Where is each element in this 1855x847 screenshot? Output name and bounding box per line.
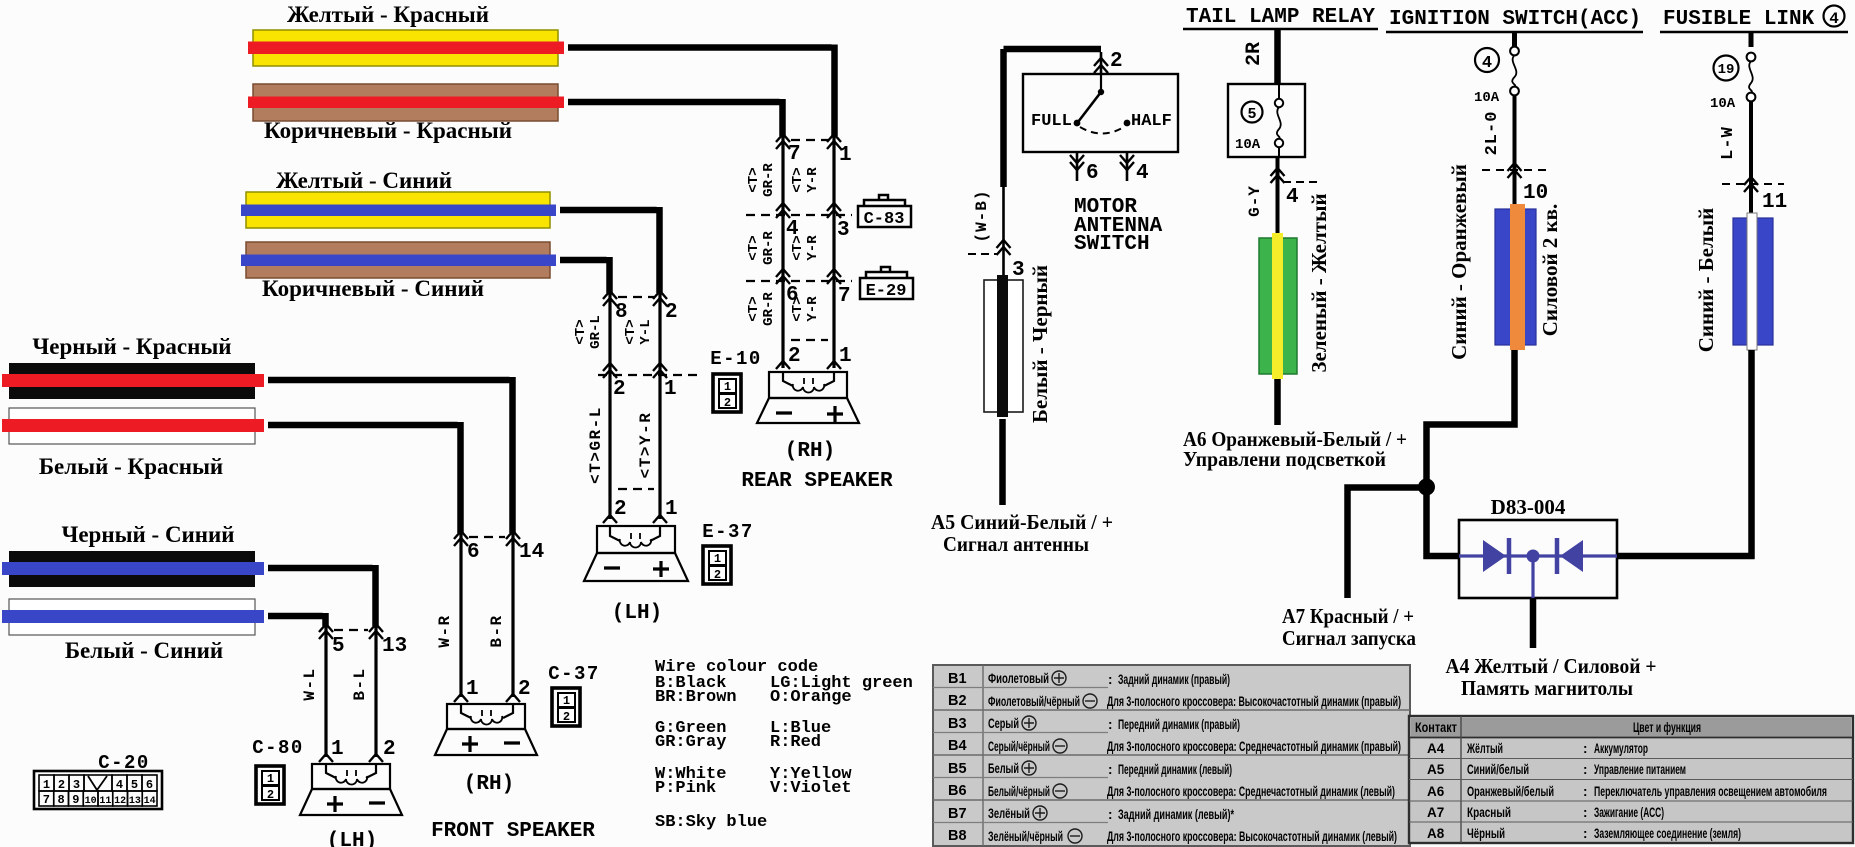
svg-text:4: 4 [116, 778, 123, 792]
svg-text:D83-004: D83-004 [1491, 495, 1566, 519]
svg-text:A6: A6 [1427, 784, 1445, 799]
junction pins 6/7 (connector E-29) [746, 280, 852, 282]
wire 2R from relay title [1274, 30, 1281, 84]
junction pins 6/14 [469, 536, 505, 538]
svg-text:<T>: <T> [573, 319, 589, 344]
wire: Y-L harness to rear speaker LH pin2 [560, 207, 660, 293]
svg-text:Черный - Синий: Черный - Синий [61, 522, 234, 547]
svg-text:Серый/чёрный: Серый/чёрный [988, 739, 1050, 754]
diode net (blue) [1459, 554, 1617, 557]
svg-text:<T>: <T> [790, 167, 806, 192]
pins 6 and 4 below switch [1077, 152, 1127, 181]
svg-text:4: 4 [1136, 162, 1149, 185]
svg-text:V:Violet: V:Violet [770, 779, 852, 798]
wire bar: black-blue (B-L) [9, 551, 255, 587]
svg-text:Для 3-полосного кроссовера: Вы: Для 3-полосного кроссовера: Высокочастот… [1107, 694, 1401, 709]
svg-text:5: 5 [131, 778, 138, 792]
wire below green bar [1274, 379, 1281, 425]
svg-text:3: 3 [1012, 259, 1025, 282]
svg-text:GR-R: GR-R [761, 163, 777, 197]
svg-text:<T>: <T> [790, 296, 806, 321]
svg-text:<T>: <T> [746, 167, 762, 192]
svg-text:Y-R: Y-R [805, 296, 821, 322]
A4-A8 contact table [1409, 716, 1853, 843]
wire: W-R harness to front speaker RH pin6 [268, 422, 461, 533]
svg-text:Заземляющее соединение (земля): Заземляющее соединение (земля) [1594, 826, 1741, 841]
svg-text:(RH): (RH) [785, 440, 835, 463]
rear LH speaker pins 2/1 [618, 488, 654, 490]
wire: battery feed down to diode box [1748, 350, 1755, 559]
svg-text:B1: B1 [948, 671, 967, 687]
node junction dot [1418, 479, 1435, 496]
svg-text:10A: 10A [1235, 137, 1261, 153]
svg-text:Белый: Белый [988, 761, 1019, 776]
svg-text:2: 2 [788, 345, 801, 368]
connector C-80 icon [256, 766, 284, 804]
svg-text:2L-0: 2L-0 [1483, 111, 1502, 156]
diode D1 [1483, 540, 1506, 572]
connector C-83 icon [858, 195, 911, 227]
svg-text:Для 3-полосного кроссовера: Ср: Для 3-полосного кроссовера: Среднечастот… [1107, 784, 1395, 799]
svg-text::: : [1583, 784, 1588, 799]
svg-text:B6: B6 [948, 783, 967, 799]
svg-text:Зелёный/чёрный: Зелёный/чёрный [988, 829, 1063, 844]
connector E-37 icon [703, 546, 731, 584]
svg-text:Сигнал запуска: Сигнал запуска [1282, 626, 1416, 650]
wire: Y-R harness to rear speaker RH pin1 [568, 45, 835, 137]
wire: antenna signal lead [999, 419, 1006, 505]
wire from fusible title [1749, 32, 1754, 47]
connector C-37 icon [552, 688, 580, 726]
svg-text:Y-L: Y-L [638, 319, 654, 344]
svg-text:Зажигание (АСС): Зажигание (АСС) [1594, 805, 1664, 820]
svg-text::: : [1108, 807, 1113, 822]
svg-text:Белый - Синий: Белый - Синий [65, 638, 223, 663]
svg-text:10: 10 [85, 796, 97, 807]
polarity symbols [1022, 671, 1097, 843]
svg-text:REAR SPEAKER: REAR SPEAKER [741, 470, 893, 493]
svg-text:4: 4 [1286, 186, 1299, 209]
connector E-10 icon [713, 374, 741, 412]
svg-text:B8: B8 [948, 828, 967, 844]
svg-text:Синий/белый: Синий/белый [1467, 762, 1529, 777]
node: Wire colour code legend [655, 658, 913, 832]
connector E-29 icon [860, 267, 913, 299]
svg-text:Передний динамик (левый): Передний динамик (левый) [1118, 762, 1232, 777]
svg-text:Аккумулятор: Аккумулятор [1594, 741, 1648, 756]
svg-text:R:Red: R:Red [770, 733, 821, 752]
svg-text::: : [1583, 805, 1588, 820]
svg-text:C-37: C-37 [548, 663, 600, 685]
wire: antenna switch pin2 feed [1004, 49, 1102, 187]
svg-text:1: 1 [714, 552, 721, 566]
svg-text:2: 2 [714, 568, 721, 582]
tail lamp relay fuse box [1228, 84, 1305, 157]
svg-text::: : [1583, 762, 1588, 777]
svg-text:2: 2 [665, 301, 678, 324]
svg-text:Желтый - Красный: Желтый - Красный [287, 2, 489, 27]
wire bar: brown-blue (GR-L) [246, 242, 550, 278]
svg-text:3: 3 [837, 219, 850, 242]
junction pins 8/2 [618, 296, 654, 298]
svg-text:13: 13 [129, 796, 141, 807]
wire: A7 branch [1348, 488, 1427, 599]
wire: junction down into diode box [1427, 487, 1460, 556]
svg-text:B-R: B-R [488, 614, 506, 647]
svg-text:(LH): (LH) [612, 602, 662, 625]
svg-text:A7: A7 [1427, 805, 1444, 820]
svg-text:O:Orange: O:Orange [770, 688, 852, 707]
svg-text:10: 10 [1523, 182, 1548, 205]
svg-text:B4: B4 [948, 738, 967, 754]
svg-text:GR-R: GR-R [761, 292, 777, 326]
speaker rear RH [757, 372, 859, 423]
svg-text:A5: A5 [1427, 762, 1445, 777]
node circled 4 [1824, 6, 1845, 27]
svg-text:A4: A4 [1427, 741, 1445, 756]
svg-text:Задний динамик (правый): Задний динамик (правый) [1118, 672, 1230, 687]
svg-text:Цвет и функция: Цвет и функция [1633, 720, 1701, 735]
wire bar: brown-red (GR-R) [253, 84, 558, 121]
svg-text:GR-L: GR-L [588, 315, 604, 349]
svg-text:Зелёный: Зелёный [988, 806, 1030, 821]
svg-text:Белый - Черный: Белый - Черный [1028, 265, 1052, 423]
wire from ignition title [1512, 32, 1517, 47]
diode box D83-004 [1459, 520, 1617, 598]
wire G-Y below relay [1276, 157, 1280, 238]
svg-text:Передний динамик (правый): Передний динамик (правый) [1118, 717, 1240, 732]
svg-text:2: 2 [267, 788, 274, 802]
svg-text:10A: 10A [1710, 96, 1736, 112]
fuse circle 4 [1475, 48, 1499, 72]
svg-text:1: 1 [665, 498, 678, 521]
svg-text:(LH): (LH) [327, 830, 377, 847]
svg-text:5: 5 [332, 635, 345, 658]
junction pins 5/13 [334, 629, 368, 631]
svg-text:8: 8 [57, 793, 64, 807]
svg-text:Переключатель управления освещ: Переключатель управления освещением авто… [1594, 784, 1827, 799]
svg-text:2: 2 [563, 710, 570, 724]
svg-text:12: 12 [114, 796, 126, 807]
wire: GR-L harness to rear speaker LH pin8 [560, 257, 610, 293]
pin 11 junction [1722, 183, 1784, 185]
svg-text:C-80: C-80 [252, 737, 304, 759]
node MOTOR ANTENNA SWITCH [1074, 196, 1163, 256]
svg-text:14: 14 [144, 796, 156, 807]
svg-text::: : [1583, 826, 1588, 841]
svg-text:7: 7 [788, 143, 801, 166]
pin 3 junction [968, 253, 998, 255]
svg-text:<T>: <T> [746, 296, 762, 321]
fuse circle 19 [1714, 56, 1739, 81]
wire: B-L harness to front speaker LH pin13 [268, 565, 376, 626]
svg-text:19: 19 [1718, 62, 1735, 78]
svg-text:11: 11 [99, 796, 111, 807]
rear RH speaker pins 2/1 [791, 339, 828, 341]
switch lever [1100, 74, 1102, 90]
wire: GR-R harness to rear speaker RH pin7 [568, 99, 783, 136]
svg-text:B7: B7 [948, 806, 967, 822]
svg-text:P:Pink: P:Pink [655, 779, 716, 798]
connector C-20 [34, 771, 162, 809]
svg-text:BR:Brown: BR:Brown [655, 688, 737, 707]
svg-text:2R: 2R [1243, 42, 1266, 66]
svg-text:GR-R: GR-R [761, 231, 777, 265]
diode D2 [1555, 538, 1560, 574]
junction pins 4/3 (connector C-83) [746, 214, 852, 216]
svg-text:Y-R: Y-R [805, 167, 821, 193]
svg-text:(W-B): (W-B) [973, 189, 991, 242]
svg-text:Управление питанием: Управление питанием [1594, 762, 1686, 777]
svg-text:C-83: C-83 [864, 210, 905, 229]
wire bar: blue-white (L-W) [1733, 218, 1773, 345]
svg-text:1: 1 [563, 694, 570, 708]
svg-text:Синий - Оранжевый: Синий - Оранжевый [1447, 164, 1471, 360]
svg-text:TAIL LAMP RELAY: TAIL LAMP RELAY [1186, 6, 1375, 29]
svg-text:Жёлтый: Жёлтый [1466, 741, 1503, 756]
pin 4 junction [1283, 181, 1318, 183]
svg-text:2: 2 [614, 498, 627, 521]
rear speaker RH wires GR-R / Y-R (thin sections) [783, 136, 834, 368]
svg-text:E-10: E-10 [710, 348, 762, 370]
svg-text:FUSIBLE LINK: FUSIBLE LINK [1663, 8, 1815, 31]
svg-text:Память магнитолы: Память магнитолы [1461, 676, 1633, 700]
svg-text:А4 Желтый / Силовой +: А4 Желтый / Силовой + [1446, 654, 1657, 678]
svg-text:4: 4 [1829, 10, 1839, 28]
wire: B-R harness to front speaker RH pin14 [268, 377, 513, 533]
svg-text:1: 1 [43, 778, 50, 792]
svg-text:B2: B2 [948, 693, 967, 709]
svg-text:SB:Sky blue: SB:Sky blue [655, 813, 767, 832]
svg-text:Контакт: Контакт [1415, 720, 1457, 735]
svg-text:7: 7 [838, 285, 851, 308]
svg-text:Фиолетовый/чёрный: Фиолетовый/чёрный [988, 694, 1080, 709]
svg-text:(RH): (RH) [464, 773, 514, 796]
svg-text:E-37: E-37 [702, 521, 754, 543]
svg-text:Белый - Красный: Белый - Красный [39, 454, 223, 479]
svg-text:2: 2 [724, 396, 731, 410]
wire L-W [1749, 101, 1753, 218]
pin 10 junction [1482, 169, 1548, 171]
svg-text:14: 14 [519, 541, 544, 564]
front speaker LH wires W-L / B-L (thin sections) [326, 626, 376, 757]
svg-text:Зеленый - Желтый: Зеленый - Желтый [1307, 193, 1331, 372]
svg-text:<T>: <T> [623, 319, 639, 344]
svg-text:3: 3 [73, 778, 80, 792]
junction pins 2/1 (connector E-10) [598, 374, 700, 376]
svg-text:Красный: Красный [1467, 805, 1511, 820]
svg-text:2: 2 [518, 678, 531, 701]
wire 2L-O [1513, 95, 1517, 209]
svg-text:E-29: E-29 [866, 282, 907, 301]
svg-text:10A: 10A [1474, 90, 1500, 106]
svg-text:6: 6 [146, 778, 153, 792]
svg-text:1: 1 [664, 378, 677, 401]
speaker front RH [435, 704, 537, 755]
svg-text:1: 1 [724, 380, 731, 394]
fusible fuse element [1747, 53, 1756, 62]
svg-text:2: 2 [613, 378, 626, 401]
motor antenna switch box [1023, 74, 1178, 152]
wire: memory feed below diode box [1530, 598, 1537, 648]
svg-text:Желтый - Синий: Желтый - Синий [276, 168, 452, 193]
svg-text:Черный - Красный: Черный - Красный [32, 334, 231, 359]
wire: diode box to fusible link feed [1617, 553, 1755, 560]
svg-text:FRONT SPEAKER: FRONT SPEAKER [431, 820, 595, 843]
svg-text::: : [1583, 741, 1588, 756]
svg-text:2: 2 [58, 778, 65, 792]
wire bar: yellow-blue (Y-L) [246, 192, 550, 228]
svg-text:1: 1 [267, 772, 274, 786]
svg-text:HALF: HALF [1131, 112, 1172, 131]
svg-text:2: 2 [383, 738, 396, 761]
front speaker RH wires W-R / B-R (thin sections) [461, 533, 513, 697]
svg-text:W-L: W-L [301, 667, 319, 700]
svg-text:6: 6 [1086, 162, 1099, 185]
svg-text:1: 1 [331, 738, 344, 761]
wire bar: white-blue (W-L) [9, 599, 255, 635]
svg-text:Управлени подсветкой: Управлени подсветкой [1183, 447, 1386, 471]
wire bar: green-yellow (G-Y) [1259, 238, 1297, 374]
svg-text:GR:Gray: GR:Gray [655, 733, 726, 752]
svg-text:5: 5 [1247, 106, 1256, 123]
svg-text:Оранжевый/белый: Оранжевый/белый [1467, 784, 1554, 799]
svg-text:1: 1 [839, 144, 852, 167]
svg-text:G-Y: G-Y [1246, 185, 1264, 217]
svg-text:11: 11 [1762, 191, 1787, 214]
svg-text:B3: B3 [948, 716, 967, 732]
junction pins 7/1 [791, 139, 828, 141]
wire bar: black-red (B-R) [9, 363, 255, 399]
dashed travel arc [1080, 127, 1124, 134]
svg-text:Синий - Белый: Синий - Белый [1694, 208, 1718, 353]
svg-text:2: 2 [1110, 50, 1123, 73]
svg-text:Силовой 2 кв.: Силовой 2 кв. [1538, 204, 1562, 337]
wire bar: white-red (W-R) [9, 408, 255, 444]
wire bar: blue-orange (2L-O) [1495, 209, 1536, 345]
svg-text:Чёрный: Чёрный [1467, 826, 1505, 841]
wire bar: white-black (W-B) [984, 280, 1023, 412]
svg-text:Белый/чёрный: Белый/чёрный [988, 784, 1050, 799]
svg-text:4: 4 [1482, 54, 1492, 73]
svg-text:Коричневый - Синий: Коричневый - Синий [262, 276, 484, 301]
speaker front LH [300, 764, 402, 815]
svg-text::: : [1108, 762, 1113, 777]
svg-text:<T>: <T> [746, 235, 762, 260]
node diode center junction [1527, 550, 1540, 563]
wire: ACC feed down to junction [1427, 350, 1515, 487]
svg-text:6: 6 [467, 541, 480, 564]
svg-text:Для 3-полосного кроссовера: Ср: Для 3-полосного кроссовера: Среднечастот… [1107, 739, 1401, 754]
svg-text:<T>: <T> [790, 235, 806, 260]
svg-text:Задний динамик (левый)*: Задний динамик (левый)* [1118, 807, 1235, 822]
svg-text:<T>GR-L: <T>GR-L [587, 406, 605, 484]
svg-text:B-L: B-L [351, 667, 369, 700]
rear speaker LH wires GR-L / Y-R (thin sections) [610, 293, 660, 519]
svg-text:1: 1 [839, 345, 852, 368]
svg-text::: : [1108, 672, 1113, 687]
speaker rear LH [584, 526, 688, 581]
svg-text:W-R: W-R [436, 614, 454, 647]
svg-text:А7 Красный / +: А7 Красный / + [1282, 604, 1414, 628]
svg-text:B5: B5 [948, 761, 967, 777]
svg-text:A8: A8 [1427, 826, 1445, 841]
svg-text:FULL: FULL [1031, 112, 1072, 131]
svg-text:Сигнал антенны: Сигнал антенны [943, 532, 1089, 556]
svg-text:<T>Y-R: <T>Y-R [637, 412, 655, 479]
svg-text:SWITCH: SWITCH [1074, 233, 1150, 256]
svg-text:А5 Синий-Белый / +: А5 Синий-Белый / + [931, 510, 1113, 534]
svg-text:13: 13 [382, 635, 407, 658]
svg-text:Серый: Серый [988, 716, 1019, 731]
svg-text:Y-R: Y-R [805, 235, 821, 261]
svg-text:1: 1 [466, 678, 479, 701]
fuse element [1278, 84, 1280, 157]
wire: W-L harness to front speaker LH pin5 [268, 613, 326, 626]
ignition fuse element [1510, 47, 1519, 56]
wire bar: yellow-red (Y-R) [253, 30, 558, 66]
svg-text:L-W: L-W [1719, 126, 1738, 160]
svg-text:Коричневый - Красный: Коричневый - Красный [264, 118, 512, 143]
svg-text:9: 9 [72, 793, 79, 807]
svg-text:IGNITION SWITCH(ACC): IGNITION SWITCH(ACC) [1389, 8, 1641, 31]
svg-text:Для 3-полосного кроссовера: Вы: Для 3-полосного кроссовера: Высокочастот… [1107, 829, 1397, 844]
B1-B8 pin table [933, 665, 1410, 846]
svg-text:Фиолетовый: Фиолетовый [988, 671, 1049, 686]
pin 2 arrow [1094, 58, 1108, 73]
svg-text::: : [1108, 717, 1113, 732]
svg-text:7: 7 [43, 793, 50, 807]
fuse circle 5 [1242, 102, 1263, 123]
